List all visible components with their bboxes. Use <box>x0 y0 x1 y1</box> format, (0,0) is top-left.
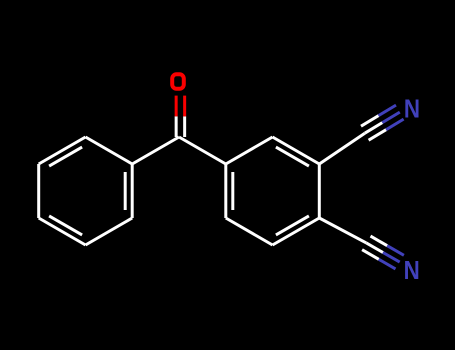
double bond inner line E6 <box>49 147 82 166</box>
wire ring edge Q1-Q2 <box>226 137 273 164</box>
double bond inner line F6 <box>231 172 234 210</box>
lower C#N triple bond blue halves <box>379 246 404 269</box>
svg-text:N: N <box>404 256 420 285</box>
right benzene ring outline <box>226 137 319 245</box>
double bond inner line F2 <box>276 147 309 166</box>
wire ring edge P6-P1 <box>86 137 133 164</box>
wire ring edge Q5-Q6 <box>226 218 273 245</box>
wire ring edge P5-P6 <box>39 137 86 164</box>
double bond inner line E4 <box>49 216 82 235</box>
wire ring edge Q4-Q5 <box>273 218 320 245</box>
wire ring edge P1-P2 <box>131 164 134 218</box>
bond ring Q3 to nitrile carbon (upper) <box>319 133 365 164</box>
upper C#N triple bond white halves <box>361 116 386 141</box>
wire ring edge P3-P4 <box>39 218 86 245</box>
bond ring Q4 to nitrile carbon (lower) <box>319 218 366 243</box>
left benzene ring (phenyl) outline <box>39 137 133 245</box>
lower C#N triple bond white halves <box>362 236 387 259</box>
bond carbonyl C to right ring <box>179 137 226 164</box>
bond left-ring to carbonyl C <box>132 137 179 164</box>
carbonyl C=O double bond: red upper halves <box>176 96 185 117</box>
upper C#N triple bond blue halves <box>379 105 404 130</box>
carbonyl C=O double bond: white lower halves <box>176 116 185 137</box>
wire ring edge P2-P3 <box>86 218 133 245</box>
wire ring edge Q6-Q1 <box>224 164 227 218</box>
double bond inner line F4 <box>276 216 309 235</box>
atom label O (carbonyl oxygen) <box>172 74 184 89</box>
double bond inner line E2 <box>124 172 127 210</box>
wire ring edge Q3-Q4 <box>318 164 321 218</box>
svg-text:N: N <box>404 95 420 124</box>
wire ring edge Q2-Q3 <box>273 137 320 164</box>
wire ring edge P4-P5 <box>37 164 40 218</box>
